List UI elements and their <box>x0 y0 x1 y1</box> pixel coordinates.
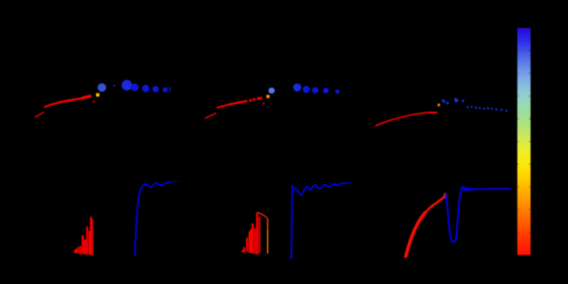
bottom-middle red hook <box>258 213 268 219</box>
panel 1 detached red dot <box>93 101 95 103</box>
bottom-left blue curve dark tail <box>171 180 179 183</box>
bottom-left blue curve <box>135 182 171 254</box>
bottom-right red curve (upper) <box>406 194 446 256</box>
panel 3 red end tick <box>426 111 427 114</box>
bottom-right red curve (thick lower) <box>406 213 425 257</box>
panel 2 blue dot row <box>293 83 339 94</box>
bottom-left red burst bars <box>74 217 93 256</box>
panel 2 blue planet circle <box>269 88 275 94</box>
panel 3 red curve <box>375 113 426 126</box>
colorbar ticks <box>517 51 530 233</box>
panel 3 dotted blue line <box>467 106 508 112</box>
panel 2 red curve upper segment <box>217 101 247 108</box>
bottom-middle blue curve dark tail <box>349 182 352 184</box>
panel 3 red curve thick end <box>428 112 438 114</box>
panel 3 blue marker cluster <box>442 98 464 104</box>
panel 2 detached red dot <box>263 103 265 105</box>
panel 1 orange square marker <box>96 93 99 96</box>
panel 2 orange marker <box>266 95 269 98</box>
bottom-middle blue base dot <box>290 257 292 259</box>
colorbar gradient <box>517 28 530 255</box>
panel 2 red curve markers <box>230 97 262 105</box>
panel 1 blue planet circle <box>98 83 107 92</box>
bottom-left blue base dot <box>134 253 136 255</box>
bottom-middle blue curve <box>291 183 348 257</box>
panel 1 tiny blue dot <box>113 85 115 87</box>
bottom-right blue notch curve <box>445 187 511 242</box>
panel 1 red curve upper segment <box>44 96 90 107</box>
bottom-middle orange drop line <box>267 219 269 231</box>
panel 1 red curve markers <box>57 95 91 104</box>
panel 3 orange marker <box>438 104 441 107</box>
panel 1 blue dot row <box>122 80 171 93</box>
bottom-middle red burst bars <box>242 212 261 254</box>
panel 1 red curve lower segment <box>35 112 44 117</box>
panel 2 red curve lower segment <box>205 113 216 118</box>
